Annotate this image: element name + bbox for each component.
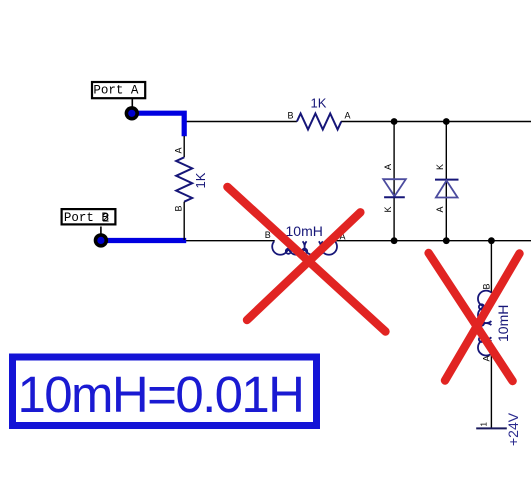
- svg-text:A: A: [482, 355, 492, 361]
- junction dot top rail at D2: [443, 118, 450, 125]
- wire: top rail left segment: [184, 121, 297, 123]
- wire: top rail right segment: [341, 121, 531, 123]
- resistor R1 vertical 1K: [176, 136, 192, 240]
- svg-text:2: 2: [102, 211, 110, 225]
- red X over L2 stroke 2: [445, 254, 520, 381]
- svg-text:B: B: [265, 230, 271, 240]
- junction dot top rail at D1: [391, 118, 398, 125]
- diode D1 (anode up): [383, 122, 406, 241]
- svg-text:B: B: [482, 283, 492, 289]
- svg-text:+24V: +24V: [505, 412, 521, 446]
- Port A stem wire: [131, 99, 133, 107]
- svg-text:1K: 1K: [311, 96, 327, 111]
- resistor R2 horizontal 1K: [297, 114, 341, 130]
- Port B terminal dot: [94, 233, 108, 247]
- svg-text:A: A: [345, 111, 351, 121]
- wire: bottom rail left segment: [184, 240, 275, 242]
- svg-text:A: A: [383, 164, 393, 170]
- svg-text:B: B: [174, 205, 184, 211]
- junction dot bottom rail at right branch: [488, 237, 495, 244]
- inductor L1 horizontal 10mH: [272, 241, 337, 254]
- svg-text:A: A: [435, 206, 445, 212]
- Port A terminal dot: [125, 106, 139, 120]
- svg-text:A: A: [174, 147, 184, 153]
- svg-text:K: K: [435, 164, 445, 170]
- annotation box 10mH=0.01H: [13, 357, 317, 426]
- red X over L1 stroke 2: [247, 212, 360, 320]
- red X over L2 stroke 1: [429, 253, 513, 381]
- svg-text:K: K: [383, 206, 393, 212]
- wire: right branch lower segment: [490, 353, 492, 428]
- wire: bottom rail right segment: [334, 240, 531, 242]
- svg-text:1K: 1K: [193, 172, 208, 188]
- wire: Port B blue wire: [101, 238, 186, 243]
- wire: right branch upper segment: [490, 241, 492, 293]
- Port B stem wire: [100, 227, 102, 235]
- inductor L2 vertical 10mH: [478, 291, 491, 356]
- svg-text:Port A: Port A: [93, 84, 139, 98]
- wire: Port A blue wire to corner and down: [132, 113, 184, 136]
- svg-text:10mH: 10mH: [495, 305, 511, 342]
- port label box Port A: [92, 82, 145, 98]
- svg-text:10mH: 10mH: [286, 223, 323, 239]
- red X over L1 stroke 1: [227, 187, 385, 332]
- svg-text:10mH=0.01H: 10mH=0.01H: [18, 366, 304, 423]
- diode D2 (cathode up): [435, 122, 459, 241]
- junction dot bottom rail at D2: [443, 237, 450, 244]
- junction dot bottom rail at D1: [391, 237, 398, 244]
- power terminal bar +24V: [476, 427, 507, 429]
- svg-text:B: B: [288, 111, 294, 121]
- svg-text:1: 1: [479, 422, 488, 427]
- port label box Port B: [62, 209, 116, 225]
